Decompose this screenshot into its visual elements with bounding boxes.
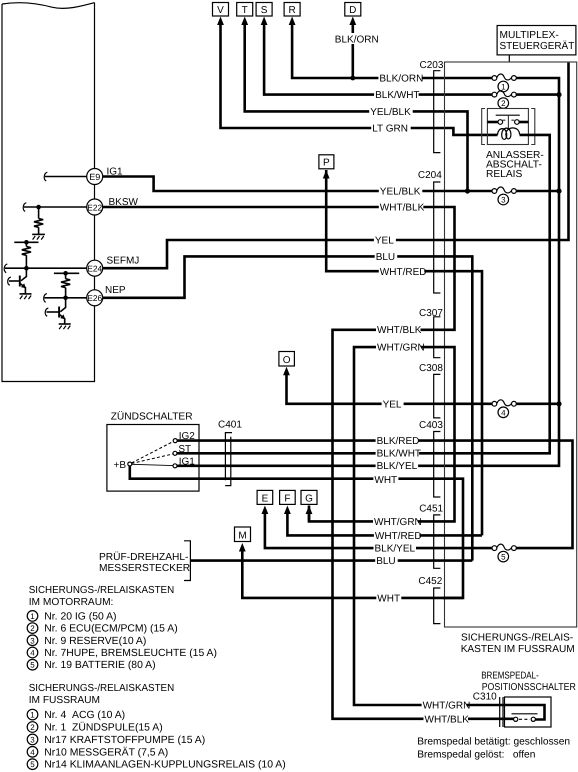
- wire BLK/WHT net: S to C203 to node: [264, 23, 562, 97]
- fuse 4: [492, 400, 516, 418]
- svg-text:NEP: NEP: [105, 285, 126, 296]
- wire YEL net: SEFMJ to C204 up to box top: [103, 63, 569, 269]
- wire BLU net: NEP to C204 down: [103, 256, 472, 560]
- svg-text:C308: C308: [419, 363, 443, 374]
- svg-text:Nr. 7HUPE, BREMSLEUCHTE (15 A): Nr. 7HUPE, BREMSLEUCHTE (15 A): [44, 648, 217, 659]
- svg-text:E9: E9: [89, 172, 100, 182]
- wire F / WHT/RED C451: [287, 512, 482, 535]
- svg-text:WHT/GRN: WHT/GRN: [423, 701, 471, 712]
- svg-text:5: 5: [501, 553, 506, 562]
- label brake pedal switch states: [417, 737, 570, 761]
- node E22 stub junction: [36, 205, 41, 210]
- legend item 5 (footwell): [27, 759, 285, 771]
- label YEL (C308 row): [382, 398, 404, 410]
- svg-text:MESSERSTECKER: MESSERSTECKER: [99, 563, 190, 574]
- svg-text:S: S: [261, 5, 268, 16]
- legend item 3 (footwell): [27, 734, 205, 746]
- svg-text:IM MOTORRAUM:: IM MOTORRAUM:: [29, 597, 114, 608]
- svg-text:3: 3: [30, 735, 35, 744]
- legend item 4 (footwell): [27, 746, 168, 758]
- wire +B / WHT net to C403 down to C452: [130, 466, 463, 598]
- ground (E22 pull-down): [32, 234, 45, 239]
- svg-text:G: G: [305, 493, 313, 504]
- connector pin E24: [87, 256, 140, 277]
- svg-text:BLK/WHT: BLK/WHT: [375, 90, 419, 101]
- resistor (E22 pull-down): [34, 207, 43, 234]
- legend item 1 (engine): [27, 611, 116, 623]
- svg-text:BLU: BLU: [376, 252, 395, 263]
- svg-text:YEL: YEL: [375, 236, 394, 247]
- svg-text:Nr. 1 ZÜNDSPULE(15 A): Nr. 1 ZÜNDSPULE(15 A): [44, 722, 162, 734]
- svg-text:SICHERUNGS-/RELAISKASTEN: SICHERUNGS-/RELAISKASTEN: [29, 585, 175, 596]
- svg-text:YEL/BLK: YEL/BLK: [370, 107, 411, 118]
- connector pin E9: [87, 167, 123, 185]
- svg-text:Nr. 19 BATTERIE (80 A): Nr. 19 BATTERIE (80 A): [44, 660, 155, 671]
- svg-text:C204: C204: [418, 170, 442, 181]
- svg-text:BLK/ORN: BLK/ORN: [379, 74, 423, 85]
- label WHT/GRN (C310 row): [422, 699, 471, 711]
- label BLK/RED (C403 row): [376, 435, 420, 447]
- legend fuse box engine compartment: [29, 585, 175, 608]
- legend item 4 (engine): [27, 647, 217, 659]
- fuse 1: [492, 74, 516, 92]
- label WHT/BLK (C307 row): [376, 324, 422, 336]
- svg-text:E22: E22: [87, 202, 102, 212]
- svg-text:R: R: [288, 5, 295, 16]
- label WHT/GRN (C307 row): [376, 341, 425, 353]
- wire BLU C451 from tach connector: [190, 559, 472, 562]
- ECU control module box (torn top edge): [2, 3, 95, 382]
- svg-text:BLK/ORN: BLK/ORN: [335, 34, 379, 45]
- terminal box P: [319, 155, 334, 179]
- terminal box T: [237, 3, 253, 26]
- label WHT (C452 row): [376, 592, 401, 604]
- svg-text:BLK/WHT: BLK/WHT: [377, 448, 421, 459]
- connector C203: [420, 60, 444, 153]
- svg-text:WHT/BLK: WHT/BLK: [380, 202, 425, 213]
- connector C452: [418, 576, 442, 624]
- svg-text:WHT/GRN: WHT/GRN: [374, 517, 422, 528]
- transistor Q1 (E24 driver): [8, 268, 27, 294]
- connector C451: [419, 504, 443, 569]
- svg-text:WHT/BLK: WHT/BLK: [425, 714, 470, 725]
- svg-text:SICHERUNGS-/RELAIS-: SICHERUNGS-/RELAIS-: [461, 633, 573, 644]
- label brake pedal position switch: [481, 671, 576, 694]
- svg-text:BLU: BLU: [376, 556, 395, 567]
- svg-text:1: 1: [30, 711, 35, 720]
- svg-text:WHT/RED: WHT/RED: [380, 267, 427, 278]
- svg-text:Nr17 KRAFTSTOFFPUMPE (15 A): Nr17 KRAFTSTOFFPUMPE (15 A): [44, 735, 205, 746]
- svg-text:WHT/BLK: WHT/BLK: [377, 325, 422, 336]
- svg-text:STEUERGERÄT: STEUERGERÄT: [500, 40, 575, 52]
- svg-text:M: M: [238, 530, 246, 541]
- svg-text:KASTEN IM FUSSRAUM: KASTEN IM FUSSRAUM: [461, 644, 575, 655]
- svg-text:C203: C203: [420, 60, 444, 71]
- svg-text:D: D: [349, 5, 356, 16]
- terminal box R: [284, 3, 300, 26]
- svg-text:RELAIS: RELAIS: [486, 169, 522, 180]
- svg-text:Bremspedal betätigt: geschloss: Bremspedal betätigt: geschlossen: [417, 737, 570, 748]
- legend fuse box footwell: [29, 683, 175, 706]
- wire IG2 / BLK/RED net to C403: [177, 441, 572, 548]
- svg-text:WHT: WHT: [374, 475, 397, 486]
- label BLU (C451 row): [375, 555, 398, 567]
- svg-text:Nr. 9 RESERVE(10 A): Nr. 9 RESERVE(10 A): [44, 636, 146, 647]
- svg-text:WHT/RED: WHT/RED: [375, 531, 422, 542]
- svg-text:Nr10 MESSGERÄT (7,5 A): Nr10 MESSGERÄT (7,5 A): [44, 746, 168, 758]
- svg-text:4: 4: [30, 649, 35, 658]
- label BLK/WHT (C203 row): [374, 89, 419, 101]
- label WHT/RED (C451 row): [374, 530, 422, 542]
- svg-text:BLK/YEL: BLK/YEL: [377, 461, 418, 472]
- label WHT/GRN (C451 row): [373, 516, 422, 528]
- svg-text:LT GRN: LT GRN: [372, 124, 408, 135]
- ignition switch contacts: [114, 431, 196, 471]
- svg-text:BLK/YEL: BLK/YEL: [375, 544, 416, 555]
- connector C401: [218, 419, 242, 485]
- label WHT/BLK (C204 row): [379, 201, 425, 213]
- label BLK/ORN (C203 row): [378, 72, 423, 84]
- label BLK/ORN (D branch): [334, 33, 379, 45]
- wire YEL net: O to C308 fuse 4: [287, 371, 562, 406]
- svg-text:5: 5: [30, 760, 35, 769]
- ignition switch box (Zündschalter): [107, 411, 199, 492]
- connector C204: [418, 170, 442, 293]
- svg-text:P: P: [323, 158, 330, 169]
- resistor (E26 pull-up): [61, 273, 70, 298]
- svg-text:YEL/BLK: YEL/BLK: [380, 187, 421, 198]
- fuse/relay box in footwell (outline): [445, 62, 577, 627]
- label YEL/BLK (C204 row): [379, 185, 423, 197]
- svg-text:3: 3: [30, 636, 35, 645]
- fuse 3: [492, 187, 516, 205]
- svg-text:4: 4: [30, 748, 35, 757]
- svg-text:SEFMJ: SEFMJ: [107, 256, 140, 267]
- svg-text:IM FUSSRAUM: IM FUSSRAUM: [29, 695, 100, 706]
- wire YEL/BLK net: T to C203 into box: [245, 23, 468, 191]
- wire WHT/BLK net: E22 to C204 down to C307: [103, 207, 514, 719]
- label fuse/relay box in footwell: [461, 633, 575, 656]
- wire BLK/ORN net: R and D to C203 and fuse 1: [292, 23, 559, 466]
- connector C307: [419, 308, 443, 358]
- terminal box E: [257, 490, 273, 514]
- label ANLASSER-ABSCHALT-RELAIS: [486, 150, 544, 180]
- svg-text:2: 2: [30, 624, 35, 633]
- connector pin E26: [87, 285, 126, 306]
- svg-text:V: V: [217, 5, 224, 16]
- svg-text:C452: C452: [418, 576, 442, 587]
- ignition switch selector lines: [132, 442, 173, 466]
- brake pedal position switch S1: [505, 697, 552, 727]
- svg-text:1: 1: [501, 83, 506, 92]
- terminal box S: [256, 3, 272, 26]
- legend item 5 (engine): [27, 659, 155, 671]
- wire WHT/GRN net: C307 to C451 via inner drop and G: [309, 347, 504, 705]
- svg-text:5: 5: [30, 661, 35, 670]
- label WHT/BLK (C310 row): [424, 713, 470, 725]
- label BLK/YEL (C451 row): [374, 543, 417, 555]
- svg-text:BREMSPEDAL-: BREMSPEDAL-: [481, 671, 539, 682]
- legend item 2 (footwell): [27, 722, 162, 734]
- terminal box M: [235, 527, 251, 552]
- svg-text:PRÜF-DREHZAHL-: PRÜF-DREHZAHL-: [99, 551, 188, 563]
- label BLK/WHT (C403 row): [376, 447, 421, 459]
- svg-text:C310: C310: [473, 692, 497, 703]
- connector pin E22: [87, 197, 139, 215]
- svg-text:C401: C401: [218, 419, 242, 430]
- svg-text:WHT/GRN: WHT/GRN: [377, 342, 425, 353]
- svg-text:Nr. 4 ACG (10 A): Nr. 4 ACG (10 A): [44, 710, 125, 721]
- node A rail stub (E24 pull-up): [14, 240, 38, 245]
- label BLK/YEL (C403 row): [376, 460, 419, 472]
- wire YEL/BLK C204 row with fuse 3: [103, 177, 562, 194]
- svg-text:MULTIPLEX-: MULTIPLEX-: [500, 30, 559, 41]
- connector C310: [473, 692, 503, 728]
- ground (Q1 emitter): [20, 294, 32, 299]
- legend item 2 (engine): [27, 623, 177, 635]
- label WHT/RED (C204 row): [379, 266, 427, 278]
- label YEL/BLK (C203 row): [369, 106, 413, 118]
- svg-text:F: F: [284, 493, 290, 504]
- svg-text:2: 2: [30, 723, 35, 732]
- resistor (E24 pull-up): [22, 242, 31, 268]
- wire E9 stub: [44, 172, 86, 181]
- terminal box F: [280, 490, 296, 514]
- terminal box G: [301, 490, 317, 514]
- wire E / BLK/YEL C451 with fuse 5: [265, 512, 492, 548]
- svg-text:Nr. 6 ECU(ECM/PCM) (15 A): Nr. 6 ECU(ECM/PCM) (15 A): [44, 624, 177, 635]
- wire E24 stub: [4, 264, 86, 273]
- transistor Q2 (E26 driver): [45, 298, 65, 324]
- legend item 1 (footwell): [27, 709, 125, 721]
- svg-text:E24: E24: [87, 264, 102, 274]
- label LT GRN (C203 row): [371, 122, 411, 134]
- svg-text:C451: C451: [419, 504, 443, 515]
- svg-text:3: 3: [501, 196, 506, 205]
- fuse 2: [492, 91, 516, 109]
- label YEL (C204 row): [374, 234, 396, 246]
- ground (Q2 emitter): [59, 324, 71, 329]
- svg-text:2: 2: [501, 99, 506, 108]
- svg-text:C403: C403: [419, 420, 443, 431]
- wire LT GRN net: V to C203 to relay coil: [221, 23, 498, 135]
- starter cut relay (Anlasser-Abschalt-Relais): [443, 109, 550, 454]
- terminal box D: [345, 3, 361, 26]
- wire M / WHT C452: [242, 549, 463, 598]
- svg-text:Nr. 20 IG (50 A): Nr. 20 IG (50 A): [44, 611, 116, 622]
- svg-text:1: 1: [30, 612, 35, 621]
- label BLU (C204 row): [375, 251, 398, 263]
- svg-text:E26: E26: [87, 293, 102, 303]
- svg-text:+B: +B: [114, 460, 127, 471]
- svg-text:ZÜNDSCHALTER: ZÜNDSCHALTER: [111, 411, 193, 423]
- svg-text:T: T: [242, 5, 248, 16]
- svg-text:Nr14 KLIMAANLAGEN-KUPPLUNGSREL: Nr14 KLIMAANLAGEN-KUPPLUNGSRELAIS (10 A): [44, 760, 285, 771]
- legend item 3 (engine): [27, 635, 146, 647]
- wire E26 stub: [44, 294, 87, 303]
- wire E22 stub: [23, 203, 86, 212]
- svg-text:Bremspedal gelöst: offen: Bremspedal gelöst: offen: [417, 750, 535, 761]
- wire IG1 / BLK/YEL net to C403: [177, 464, 443, 467]
- test tachometer connector label (Prüf-Drehzahlmesserstecker): [99, 541, 190, 581]
- connector C308: [419, 363, 443, 418]
- wire G / WHT/GRN C451: [308, 512, 311, 521]
- wire WHT/RED net: P to C204 down: [326, 170, 482, 535]
- multiplex control unit label box: [497, 26, 576, 63]
- terminal box O: [279, 352, 295, 376]
- terminal box V: [213, 3, 229, 26]
- wire ST / BLK/WHT net to C403: [177, 452, 443, 455]
- node rail stub (E26 pull-up): [54, 271, 79, 276]
- connector C403: [419, 420, 443, 497]
- label WHT (C403 row): [373, 474, 398, 486]
- svg-text:SICHERUNGS-/RELAISKASTEN: SICHERUNGS-/RELAISKASTEN: [29, 683, 175, 694]
- svg-text:YEL: YEL: [383, 399, 402, 410]
- svg-text:O: O: [283, 355, 291, 366]
- svg-text:E: E: [262, 493, 269, 504]
- svg-text:WHT: WHT: [377, 593, 400, 604]
- fuse 5: [492, 544, 516, 562]
- svg-text:BLK/RED: BLK/RED: [377, 436, 420, 447]
- svg-text:4: 4: [501, 408, 506, 417]
